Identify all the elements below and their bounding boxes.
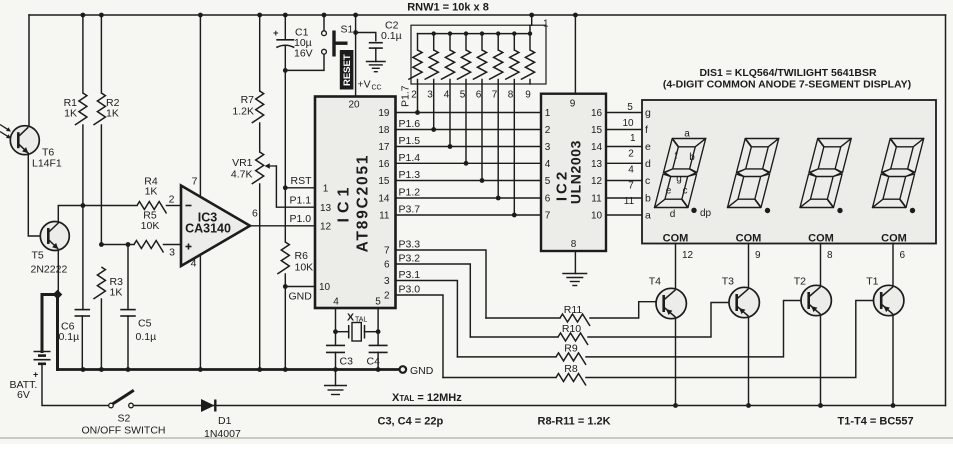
- svg-text:CA3140: CA3140: [185, 222, 231, 236]
- svg-text:ON/OFF SWITCH: ON/OFF SWITCH: [82, 425, 166, 437]
- junction VR1 ground: [257, 367, 262, 372]
- capacitor C1 10u 16V: [284, 15, 286, 40]
- svg-text:7: 7: [628, 181, 634, 192]
- transistor T3: [729, 287, 759, 317]
- resistor R2: [100, 15, 102, 93]
- svg-text:12: 12: [682, 250, 694, 261]
- svg-text:3: 3: [545, 142, 551, 153]
- display DIS1 body: [642, 100, 936, 244]
- svg-text:d: d: [670, 209, 676, 220]
- svg-text:R11: R11: [564, 304, 583, 316]
- junction RNW1 pin 4 node: [448, 144, 453, 149]
- svg-text:e: e: [645, 141, 651, 153]
- junction C6 ground: [81, 367, 86, 372]
- svg-text:4: 4: [444, 90, 450, 101]
- svg-text:7: 7: [545, 211, 551, 222]
- svg-text:S1: S1: [341, 24, 354, 36]
- wire RNW1 pin 6 drop: [481, 84, 483, 181]
- svg-text:P1.1: P1.1: [290, 195, 312, 207]
- svg-text:11: 11: [591, 194, 602, 205]
- junction R1 top rail: [81, 13, 86, 18]
- svg-text:15: 15: [591, 125, 603, 136]
- wire battery to switch S2: [42, 364, 109, 406]
- capacitor C4: [369, 344, 388, 346]
- svg-text:8: 8: [571, 239, 577, 250]
- wire IC2 pin 9 to VCC: [574, 15, 576, 94]
- svg-text:P1.7: P1.7: [400, 85, 412, 107]
- light arrows into T6: [0, 125, 9, 131]
- resistor R11: [486, 317, 560, 319]
- svg-text:6V: 6V: [17, 389, 30, 401]
- pin 6 output wire: [250, 225, 314, 227]
- digit 2 of DIS1: [728, 139, 779, 208]
- svg-text:P1.3: P1.3: [399, 169, 421, 181]
- junction RNW1 rail 6: [480, 31, 484, 35]
- svg-text:COM: COM: [736, 233, 762, 245]
- svg-text:1: 1: [630, 133, 636, 144]
- svg-text:3: 3: [384, 276, 390, 287]
- junction RNW1 pin 8 node: [512, 213, 517, 218]
- wire COM 4 to transistor T1: [892, 244, 894, 287]
- svg-text:6: 6: [900, 250, 906, 261]
- svg-text:15: 15: [378, 176, 390, 187]
- svg-text:R8: R8: [564, 363, 578, 375]
- resistor R1: [82, 15, 84, 93]
- wire RNW1 pin 4 drop: [449, 84, 451, 147]
- svg-text:DIS1 = KLQ564/TWILIGHT 5641BSR: DIS1 = KLQ564/TWILIGHT 5641BSR: [699, 67, 877, 79]
- wire P1.5 to IC2: [396, 146, 542, 148]
- svg-text:RST: RST: [291, 175, 313, 187]
- switch S2: [109, 403, 114, 408]
- decimal point digit 4: [910, 208, 915, 213]
- svg-text:+V: +V: [358, 79, 371, 91]
- junction crystal left: [333, 329, 338, 334]
- ground symbol IC2: [562, 273, 587, 275]
- wire P3.2 to R10: [396, 264, 471, 337]
- svg-text:10: 10: [591, 211, 603, 222]
- capacitor C6: [82, 206, 84, 310]
- svg-text:COM: COM: [881, 233, 907, 245]
- junction C5 top: [126, 242, 131, 247]
- svg-text:P1.0: P1.0: [290, 213, 312, 225]
- wire RNW1 pin 2 drop: [417, 84, 419, 113]
- wire VCC right edge: [945, 15, 947, 406]
- IC2 ULN2003 body: [541, 94, 606, 251]
- svg-text:CC: CC: [372, 85, 382, 92]
- svg-text:L14F1: L14F1: [32, 158, 62, 170]
- ground symbol C2: [366, 61, 386, 63]
- svg-text:R9: R9: [564, 343, 578, 355]
- svg-text:GND: GND: [289, 291, 313, 303]
- minus input mark: [186, 205, 192, 207]
- svg-text:9: 9: [755, 250, 761, 261]
- svg-text:g: g: [645, 107, 651, 119]
- svg-text:b: b: [689, 152, 695, 163]
- wire S1 top to rail: [323, 15, 325, 31]
- ground symbol main: [335, 370, 337, 386]
- svg-text:6: 6: [476, 90, 482, 101]
- svg-text:5: 5: [627, 102, 633, 113]
- capacitor C5: [127, 245, 129, 310]
- svg-text:16V: 16V: [294, 48, 313, 60]
- svg-text:P3.1: P3.1: [399, 269, 421, 281]
- svg-text:2: 2: [169, 194, 175, 206]
- junction T3 rail: [746, 403, 751, 408]
- svg-text:17: 17: [378, 142, 390, 153]
- wire IC2 pin 8 to ground: [574, 251, 576, 274]
- wire pin 5 to crystal: [377, 308, 379, 345]
- wire IC2 to display segment d: [606, 162, 642, 164]
- svg-text:10: 10: [622, 118, 634, 129]
- svg-text:R8-R11 = 1.2K: R8-R11 = 1.2K: [538, 416, 611, 428]
- wire RST: [285, 187, 315, 189]
- svg-text:9: 9: [570, 99, 576, 110]
- svg-text:16: 16: [378, 159, 390, 170]
- svg-text:C3: C3: [340, 356, 354, 368]
- svg-text:11: 11: [624, 196, 635, 207]
- svg-text:0.1µ: 0.1µ: [59, 331, 80, 343]
- svg-text:5: 5: [545, 176, 551, 187]
- junction C3 ground rail: [333, 367, 338, 372]
- wire P1.6 to IC2: [396, 129, 542, 131]
- svg-text:18: 18: [378, 125, 390, 136]
- junction RNW1 rail 5: [464, 31, 468, 35]
- svg-text:1: 1: [323, 184, 329, 195]
- wire P1.2 to IC2: [396, 197, 542, 199]
- svg-text:0.1µ: 0.1µ: [381, 30, 402, 42]
- junction RST: [283, 185, 288, 190]
- wire P3.0 to R8: [396, 295, 444, 378]
- svg-text:1K: 1K: [106, 108, 119, 120]
- svg-text:TAL: TAL: [355, 317, 367, 324]
- svg-text:(4-DIGIT COMMON ANODE 7-SEGMEN: (4-DIGIT COMMON ANODE 7-SEGMENT DISPLAY): [663, 79, 911, 91]
- svg-text:COM: COM: [663, 233, 689, 245]
- wire thick battery negative link: [42, 295, 58, 352]
- junction diamond battery node: [53, 290, 63, 300]
- wire VCC top rail: [29, 14, 946, 16]
- svg-text:4: 4: [333, 297, 339, 308]
- svg-text:R10: R10: [562, 323, 581, 335]
- svg-text:b: b: [645, 193, 651, 205]
- resistor R9: [457, 356, 556, 358]
- wire P3.1 to R9: [396, 281, 458, 357]
- svg-text:9: 9: [525, 90, 531, 101]
- svg-text:14: 14: [591, 142, 603, 153]
- svg-text:GND: GND: [410, 365, 434, 377]
- resistor R10: [470, 336, 558, 338]
- wire IC2 to display segment g: [606, 112, 642, 114]
- resistor R5: [134, 241, 164, 253]
- decimal point digit 1: [691, 208, 696, 213]
- resistor RNW1 element 5: [481, 34, 483, 50]
- resistor RNW1 element 1: [417, 34, 419, 50]
- svg-text:12: 12: [320, 222, 332, 233]
- wire T5 emitter down: [57, 250, 59, 295]
- wire RNW1 pin 7 drop: [497, 84, 499, 198]
- resistor RNW1 element 4: [465, 34, 467, 50]
- svg-text:4: 4: [545, 159, 551, 170]
- svg-text:R6: R6: [295, 250, 309, 262]
- svg-text:c: c: [645, 175, 650, 187]
- junction C4 ground rail: [376, 367, 381, 372]
- junction T2 rail: [818, 403, 823, 408]
- RESET tag: [340, 50, 354, 90]
- svg-text:7: 7: [192, 176, 198, 188]
- svg-text:X: X: [347, 312, 354, 324]
- svg-text:10K: 10K: [141, 220, 160, 232]
- svg-text:4.7K: 4.7K: [231, 169, 253, 181]
- wire P3.3 to R11: [396, 250, 487, 318]
- junction RNW1 rail 8: [512, 31, 516, 35]
- svg-text:dp: dp: [700, 208, 712, 219]
- junction RNW1 pin 5 node: [464, 161, 469, 166]
- junction T1 rail: [891, 403, 896, 408]
- wire T6 emitter to T5 base: [28, 154, 41, 237]
- svg-text:10: 10: [319, 282, 331, 293]
- svg-text:2N2222: 2N2222: [31, 264, 68, 276]
- svg-text:7: 7: [492, 90, 498, 101]
- svg-text:RESET: RESET: [342, 54, 353, 86]
- svg-text:1K: 1K: [110, 287, 123, 299]
- junction RNW1 pin 6 node: [480, 178, 485, 183]
- junction R2 top rail: [99, 13, 104, 18]
- svg-text:f: f: [675, 151, 678, 162]
- svg-text:2: 2: [545, 125, 551, 136]
- svg-text:1: 1: [545, 108, 551, 119]
- svg-text:a: a: [684, 129, 690, 140]
- svg-text:XTAL = 12MHz: XTAL = 12MHz: [392, 392, 462, 404]
- svg-text:T1-T4 = BC557: T1-T4 = BC557: [838, 416, 914, 428]
- svg-text:T4: T4: [649, 276, 661, 288]
- decimal point digit 2: [765, 208, 770, 213]
- svg-text:19: 19: [378, 108, 390, 119]
- wire T4 emitter to rail: [675, 318, 677, 406]
- svg-text:f: f: [645, 124, 648, 136]
- svg-text:4: 4: [628, 165, 634, 176]
- resistor network RNW1 box: [411, 25, 546, 84]
- RNW1 common rail: [418, 33, 531, 35]
- diode D1: [201, 399, 215, 412]
- svg-text:C5: C5: [138, 318, 152, 330]
- junction pin10: [283, 284, 288, 289]
- svg-text:T2: T2: [794, 276, 806, 288]
- wire RNW1 pin 8 drop: [513, 84, 515, 215]
- digit 3 of DIS1: [800, 139, 851, 208]
- svg-text:6: 6: [545, 194, 551, 205]
- junction RNW1 rail 3: [432, 31, 436, 35]
- RNW1 pin 1 wire to VCC: [530, 15, 532, 34]
- junction R3 ground: [99, 367, 104, 372]
- svg-text:16: 16: [591, 108, 603, 119]
- svg-text:a: a: [645, 210, 651, 222]
- svg-text:1.2K: 1.2K: [232, 106, 254, 118]
- resistor RNW1 element 7: [513, 34, 515, 50]
- svg-text:2: 2: [411, 90, 417, 101]
- svg-text:C3, C4 = 22p: C3, C4 = 22p: [378, 416, 444, 428]
- resistor R8: [443, 377, 556, 379]
- wire S1 branch: [285, 54, 324, 70]
- svg-text:4: 4: [191, 258, 197, 270]
- svg-text:14: 14: [378, 194, 390, 205]
- wire COM 3 to transistor T2: [820, 244, 822, 287]
- op-amp IC3 CA3140: [181, 186, 250, 267]
- wire IC1 pin 10: [285, 286, 315, 288]
- junction R1 bottom: [81, 203, 86, 208]
- svg-text:S2: S2: [118, 413, 131, 425]
- junction RNW1 pin 3 node: [431, 127, 436, 132]
- svg-text:e: e: [666, 186, 672, 197]
- svg-text:5: 5: [375, 297, 381, 308]
- svg-text:3: 3: [427, 90, 433, 101]
- junction C1 S1 node: [283, 68, 288, 73]
- wire pin 4 to crystal: [335, 308, 337, 345]
- svg-text:P1.4: P1.4: [399, 152, 421, 164]
- resistor RNW1 element 6: [497, 34, 499, 50]
- resistor R6: [277, 242, 289, 274]
- phototransistor T6: [10, 126, 39, 155]
- svg-text:11: 11: [379, 211, 390, 222]
- wire T2 emitter to rail: [820, 315, 822, 406]
- transistor T4: [656, 288, 686, 318]
- svg-text:12: 12: [591, 176, 603, 187]
- pin 4 wire to ground: [199, 255, 201, 370]
- junction R7 top rail: [257, 13, 262, 18]
- battery BATT 6V: [34, 351, 51, 353]
- transistor T1: [874, 285, 904, 315]
- junction crystal right: [376, 329, 381, 334]
- svg-text:+: +: [33, 370, 38, 380]
- junction C5 ground: [126, 367, 131, 372]
- junction RNW1 rail 9: [528, 31, 532, 35]
- svg-text:ULN2003: ULN2003: [568, 140, 584, 204]
- junction T4 rail: [673, 403, 678, 408]
- wire P1.3 to IC2: [396, 180, 542, 182]
- svg-text:13: 13: [320, 203, 332, 214]
- ground rail thick: [58, 368, 400, 371]
- svg-text:10K: 10K: [295, 262, 314, 274]
- svg-text:D1: D1: [218, 415, 232, 427]
- wire T1 emitter to rail: [892, 315, 894, 406]
- wire IC2 to display segment f: [606, 129, 642, 131]
- svg-text:P3.2: P3.2: [399, 253, 421, 265]
- svg-text:RNW1 = 10k x 8: RNW1 = 10k x 8: [407, 2, 489, 14]
- wire battery positive bottom rail: [131, 405, 946, 407]
- wire thick to ground rail: [56, 295, 59, 370]
- wire COM 2 to transistor T3: [748, 244, 750, 289]
- svg-text:20: 20: [348, 100, 360, 111]
- digit 1 of DIS1: [655, 139, 706, 208]
- svg-text:3: 3: [169, 247, 175, 259]
- svg-text:P1.2: P1.2: [399, 187, 421, 199]
- GND terminal: [400, 366, 407, 373]
- resistor RNW1 element 8: [529, 34, 531, 50]
- resistor R7: [259, 15, 261, 91]
- wire IC2 to display segment a: [606, 214, 642, 216]
- resistor RNW1 element 3: [449, 34, 451, 50]
- junction R6 ground rail: [283, 367, 288, 372]
- wire VCC left edge to T6 collector: [28, 15, 30, 127]
- svg-text:6: 6: [252, 208, 258, 220]
- svg-text:COM: COM: [808, 233, 834, 245]
- svg-text:+: +: [273, 28, 279, 39]
- junction C1 top rail: [283, 13, 288, 18]
- svg-text:P3.7: P3.7: [399, 204, 421, 216]
- svg-text:d: d: [645, 158, 651, 170]
- wire RNW1 pin 3 drop: [433, 84, 435, 130]
- preset VR1 4.7K: [259, 123, 261, 152]
- wire node B to R5: [101, 244, 134, 246]
- wire P1.7 to IC2: [396, 112, 542, 114]
- junction RNW1 pin 7 node: [496, 196, 501, 201]
- junction R2 bottom node B: [99, 242, 104, 247]
- wire VCC to IC1 pin 20: [355, 15, 357, 97]
- resistor R3: [93, 267, 105, 299]
- svg-text:2: 2: [628, 149, 634, 160]
- svg-text:1: 1: [543, 19, 549, 30]
- svg-text:P3.3: P3.3: [399, 239, 421, 251]
- svg-text:VR1: VR1: [232, 157, 253, 169]
- svg-text:c: c: [683, 186, 688, 197]
- wire IC2 to display segment c: [606, 180, 642, 182]
- svg-text:IC1: IC1: [336, 183, 353, 223]
- svg-text:1K: 1K: [64, 108, 77, 120]
- svg-text:6: 6: [384, 260, 390, 271]
- wire VR1 wiper to P1.1: [276, 166, 314, 207]
- wire RNW1 pin 5 drop: [465, 84, 467, 163]
- IC1 AT89C2051 body: [315, 97, 396, 309]
- svg-text:AT89C2051: AT89C2051: [354, 154, 371, 253]
- svg-text:g: g: [676, 174, 682, 185]
- junction RNW1 pin 2 node: [415, 110, 420, 115]
- capacitor C2 0.1u: [369, 42, 383, 44]
- wire COM 1 to transistor T4: [675, 244, 677, 290]
- svg-text:2: 2: [384, 291, 390, 302]
- svg-text:T3: T3: [722, 276, 734, 288]
- svg-text:8: 8: [827, 250, 833, 261]
- wire IC2 to display segment e: [606, 146, 642, 148]
- wire P1.4 to IC2: [396, 162, 542, 164]
- pin 7 wire to VCC: [199, 15, 201, 197]
- digit 4 of DIS1: [873, 139, 924, 208]
- transistor T5: [40, 222, 69, 251]
- wire IC2 to display segment b: [606, 197, 642, 199]
- svg-text:P1.6: P1.6: [399, 118, 421, 130]
- junction RNW1 rail 4: [448, 31, 452, 35]
- scan shadow bottom: [0, 437, 953, 439]
- svg-text:P1.5: P1.5: [399, 135, 421, 147]
- svg-text:T5: T5: [32, 250, 44, 262]
- wire T3 emitter to rail: [748, 317, 750, 406]
- svg-text:0.1µ: 0.1µ: [136, 331, 157, 343]
- decimal point digit 3: [837, 208, 842, 213]
- wire C2 branch: [356, 33, 376, 41]
- capacitor C3: [326, 344, 345, 346]
- wire T5 collector up to node A: [58, 206, 137, 223]
- svg-text:P3.0: P3.0: [399, 284, 421, 296]
- svg-text:7: 7: [384, 246, 390, 257]
- resistor R4: [137, 202, 167, 214]
- crystal XTAL: [336, 331, 349, 333]
- svg-text:C4: C4: [367, 356, 381, 368]
- svg-text:5: 5: [460, 90, 466, 101]
- junction RNW1 rail 7: [496, 31, 500, 35]
- svg-text:T1: T1: [866, 276, 878, 288]
- resistor RNW1 element 2: [433, 34, 435, 50]
- junction VCC column rail: [353, 13, 358, 18]
- svg-text:8: 8: [508, 90, 514, 101]
- plus input mark: [186, 246, 192, 248]
- svg-text:13: 13: [591, 159, 603, 170]
